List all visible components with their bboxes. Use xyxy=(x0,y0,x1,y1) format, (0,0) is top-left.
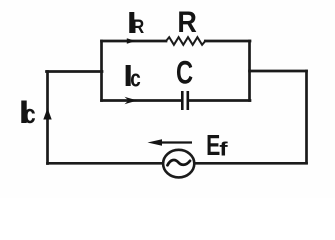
wire box left edge xyxy=(100,41,103,101)
svg-text:E: E xyxy=(206,130,220,162)
svg-text:c: c xyxy=(130,65,141,92)
wire bottom left segment xyxy=(48,162,164,165)
wire top branch left segment xyxy=(102,40,167,43)
capacitor C plates xyxy=(182,91,188,110)
source sine tilde xyxy=(168,160,191,165)
wire bottom right segment xyxy=(194,162,307,165)
svg-text:R: R xyxy=(177,6,197,40)
wire right connector xyxy=(250,70,307,73)
svg-text:R: R xyxy=(132,16,144,37)
wire bottom branch right segment xyxy=(189,99,250,102)
wire right vertical xyxy=(305,71,308,163)
resistor R xyxy=(166,37,205,45)
svg-text:c: c xyxy=(24,100,36,130)
source current arrow head (points left) xyxy=(148,139,163,146)
svg-text:f: f xyxy=(219,138,228,160)
arrow on left wire (I_c direction, up) xyxy=(43,108,51,120)
wire bottom branch left segment xyxy=(102,99,183,102)
arrow on top branch (I_R direction) xyxy=(127,38,136,43)
wire left vertical xyxy=(46,72,49,164)
wire top branch right segment xyxy=(205,40,250,43)
source E_f circle xyxy=(163,150,194,178)
arrow on bottom branch (I_c direction) xyxy=(125,97,138,104)
wire left connector xyxy=(47,70,103,73)
svg-text:C: C xyxy=(176,55,193,90)
wire box right edge xyxy=(248,41,251,101)
source current arrow line xyxy=(156,141,192,143)
